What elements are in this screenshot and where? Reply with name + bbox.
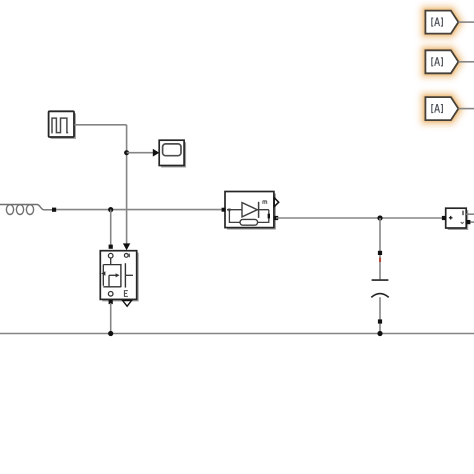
wire from tag #2 — [458, 61, 474, 63]
wire from tag #1 — [458, 21, 474, 23]
From tag [A] #3 glow — [425, 97, 458, 120]
wire pulse generator to gate node — [74, 124, 126, 126]
wire to scope — [127, 152, 153, 154]
wire from tag #3 — [458, 108, 474, 110]
junction bus left — [108, 331, 113, 336]
wire measurement minus out — [470, 221, 474, 223]
From tag [A] #2 glow — [425, 50, 458, 73]
From tag [A] #2 — [425, 50, 458, 73]
junction bus right — [377, 331, 382, 336]
junction capacitor node — [377, 215, 382, 220]
diode block D — [222, 192, 279, 230]
junction scope branch — [124, 150, 129, 155]
gate arrowhead into mosfet — [123, 243, 130, 250]
wire inductor to diode — [56, 209, 223, 211]
junction node drain — [108, 207, 113, 212]
current measurement block — [442, 208, 471, 230]
pulse generator block — [49, 111, 76, 139]
capacitor branch — [371, 218, 388, 334]
From tag [A] #3 — [425, 97, 458, 120]
wire gate vertical — [126, 125, 128, 244]
wire node to mosfet drain — [110, 210, 112, 245]
bus wire bottom — [0, 333, 474, 335]
wire diode to measurement — [276, 217, 444, 219]
wire measurement signal out — [466, 213, 474, 215]
From tag [A] #1 glow — [425, 11, 458, 34]
inductor L — [0, 205, 56, 215]
From tag [A] #1 — [425, 11, 458, 34]
wire mosfet source to bus — [110, 303, 112, 334]
scope block — [159, 140, 186, 167]
scope input arrowhead — [153, 149, 160, 157]
mosfet block Q — [100, 245, 138, 307]
